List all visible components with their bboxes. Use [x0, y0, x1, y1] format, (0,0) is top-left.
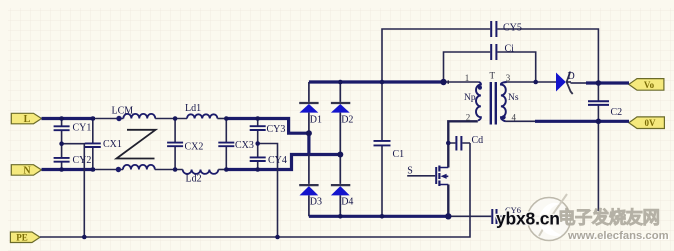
svg-text:Np: Np: [464, 93, 476, 103]
wire PE run: [40, 143, 470, 237]
capacitor C1: [374, 82, 391, 216]
wire L thick CX3 to bridge jog: [226, 119, 309, 134]
transformer T secondary winding Ns: [501, 82, 507, 121]
svg-text:C2: C2: [611, 107, 623, 118]
junction CY1/L: [59, 116, 64, 121]
svg-text:LCM: LCM: [112, 106, 134, 117]
watermark www.elecfans.com: [567, 230, 670, 243]
watermark logo circle: [528, 194, 571, 241]
svg-text:Vo: Vo: [644, 80, 655, 90]
svg-text:CY5: CY5: [503, 23, 522, 34]
wire top DC bus: [309, 80, 444, 83]
wire diode to Vo: [571, 82, 587, 84]
svg-text:www.elecfans.com: www.elecfans.com: [567, 230, 669, 242]
svg-text:1: 1: [465, 73, 470, 83]
inductor LCM lower winding: [123, 165, 155, 170]
junction CY3-CY4 midpoint: [255, 141, 260, 146]
capacitor CX3: [218, 119, 234, 170]
junction Ci/pin3 wire: [533, 80, 538, 85]
terminal Vo: [629, 79, 664, 91]
junction D2/top bus: [338, 80, 343, 85]
wire 0V thick run: [535, 120, 629, 123]
wire N thin to LCM lower: [95, 169, 123, 171]
svg-text:2: 2: [466, 113, 471, 123]
wire L thin Ld1 to CX3: [217, 118, 226, 120]
transformer core bars: [490, 82, 492, 125]
svg-text:D2: D2: [341, 115, 353, 126]
junction CX3/L: [224, 116, 229, 121]
wire pin3 to output diode: [507, 81, 558, 83]
junction CY caps midpoint/PE wire left: [82, 235, 87, 240]
junction D4/bottom bus: [338, 214, 343, 219]
svg-text:CY3: CY3: [267, 124, 286, 135]
capacitor CY1: [54, 119, 70, 144]
junction C1 CY5/top bus: [380, 80, 385, 85]
junction CX1/N: [91, 167, 96, 172]
capacitor Cd: [448, 136, 470, 151]
diode D1: [299, 103, 318, 133]
svg-text:CY1: CY1: [73, 123, 92, 134]
wire 0V down to CY6 line: [597, 121, 599, 211]
junction bridge AC left: [306, 130, 312, 136]
junction Cd/drain: [446, 141, 451, 146]
bridge left branch top: [308, 82, 310, 102]
junction CX1/L: [91, 116, 96, 121]
capacitor C2: [588, 83, 609, 121]
svg-text:Ld1: Ld1: [185, 103, 201, 114]
terminal PE: [10, 232, 40, 243]
bridge left branch thick mid segment: [307, 133, 310, 154]
capacitor CY5 top Y-cap: [382, 21, 598, 83]
junction CY caps midpoint/PE wire right: [275, 235, 280, 240]
junction CY5 C2/Vo wire: [596, 80, 602, 86]
svg-text:CY2: CY2: [73, 155, 92, 166]
terminal L: [11, 113, 41, 125]
junction Ci/top bus: [440, 79, 446, 85]
wire N thin LCM to Ld2: [155, 169, 183, 171]
capacitor CY2: [54, 144, 70, 170]
junction CX2/N: [173, 167, 178, 172]
svg-text:C1: C1: [393, 149, 405, 160]
svg-text:Cd: Cd: [472, 135, 484, 146]
core Z symbol of LCM: [117, 130, 156, 159]
svg-text:D3: D3: [310, 197, 322, 208]
pin tick pin1: [447, 80, 449, 84]
svg-text:Ld2: Ld2: [186, 174, 202, 185]
svg-text:L: L: [24, 114, 31, 125]
wire pin1 of transformer: [444, 81, 479, 83]
wire CY3-CY4 midpoint to PE: [258, 144, 278, 238]
svg-text:电子发烧友网: 电子发烧友网: [558, 208, 659, 228]
diode D output rectifier: [556, 72, 573, 95]
svg-text:0V: 0V: [645, 118, 657, 128]
inductor Ld1: [187, 114, 217, 118]
svg-text:CY4: CY4: [268, 155, 287, 166]
transformer T primary winding Np: [476, 82, 481, 121]
junction CX2/L: [173, 116, 178, 121]
inductor Ld2: [183, 170, 219, 174]
svg-text:PE: PE: [16, 233, 28, 243]
wire pin2 to MOSFET drain: [448, 121, 478, 167]
transistor S (MOSFET): [407, 166, 448, 217]
svg-text:D4: D4: [341, 197, 353, 208]
junction CY1-CY2 midpoint: [59, 141, 64, 146]
bridge right branch top: [339, 82, 341, 102]
junction C2/0V wire: [596, 119, 602, 125]
wire N thick CX3 to bridge jog: [226, 155, 340, 170]
junction CY4/N: [255, 167, 260, 172]
wire bottom DC bus: [309, 215, 449, 218]
junction CX3/N: [224, 167, 229, 172]
wire N thick from terminal to CX1: [42, 168, 96, 171]
svg-text:D1: D1: [310, 115, 322, 126]
diode D2: [331, 103, 350, 155]
wire N thin Ld2 to CX3: [218, 169, 226, 171]
capacitor Ci: [444, 44, 536, 82]
junction MOSFET source/bottom bus: [445, 213, 451, 219]
wire pin4 to 0V: [506, 120, 536, 122]
svg-text:Ci: Ci: [505, 44, 515, 55]
svg-text:N: N: [23, 165, 31, 176]
svg-text:Ns: Ns: [508, 93, 519, 103]
svg-text:CX2: CX2: [185, 142, 204, 153]
svg-text:CX1: CX1: [103, 139, 122, 150]
polarity dot LCM upper: [116, 116, 121, 121]
junction CY2/N: [59, 167, 64, 172]
svg-text:D: D: [568, 71, 575, 82]
capacitor CX2: [167, 119, 183, 170]
svg-text:CX3: CX3: [235, 140, 254, 151]
junction bridge AC right: [337, 152, 343, 158]
capacitor CY6: [448, 209, 546, 224]
diode D4: [331, 185, 350, 216]
svg-text:4: 4: [512, 113, 517, 123]
capacitor CX1: [85, 119, 101, 170]
wire L thin from CX1 to LCM: [95, 118, 123, 120]
capacitor CY3: [250, 119, 266, 144]
junction C1/bottom bus: [380, 214, 385, 219]
inductor LCM upper winding: [123, 114, 155, 119]
capacitor CY4: [250, 144, 266, 170]
terminal 0V: [629, 117, 665, 129]
svg-text:ybx8.cn: ybx8.cn: [496, 209, 560, 229]
junction CY3/L: [255, 116, 260, 121]
wire L thick from terminal to CX1: [42, 117, 96, 120]
terminal N: [11, 165, 41, 177]
polarity dot transformer primary: [478, 86, 482, 90]
polarity dot transformer secondary: [502, 115, 506, 119]
svg-text:T: T: [490, 71, 496, 81]
svg-text:S: S: [407, 166, 413, 177]
diode D3: [299, 185, 318, 216]
wire L thin LCM to Ld1: [155, 118, 187, 120]
wire CY1-CY2 midpoint to PE: [62, 144, 85, 237]
svg-text:3: 3: [506, 73, 511, 83]
polarity dot LCM lower: [116, 167, 121, 172]
